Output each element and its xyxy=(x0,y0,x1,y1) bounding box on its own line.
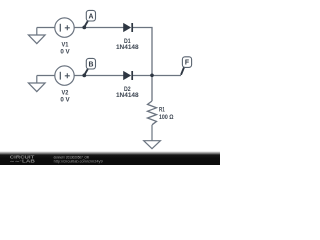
label V2 value xyxy=(60,90,70,104)
ground (top-left, for V1) xyxy=(28,28,45,44)
wire: junction down to resistor R1 top xyxy=(151,75,153,101)
svg-text:B: B xyxy=(89,61,94,68)
node F flag xyxy=(181,57,192,75)
wire: V1 right terminal to diode D1 anode xyxy=(74,27,123,29)
node B flag xyxy=(82,58,95,77)
svg-text:0 V: 0 V xyxy=(60,48,70,55)
diode D1 xyxy=(124,23,133,32)
voltage source V2 xyxy=(55,66,74,85)
node A flag xyxy=(82,10,95,29)
label D1 xyxy=(116,38,139,51)
wire: D1 cathode to top-right corner then down to junction xyxy=(133,28,152,76)
label D2 xyxy=(116,86,139,99)
svg-text:http://circuitlab.com/c/m24y9: http://circuitlab.com/c/m24y9 xyxy=(54,160,103,164)
wire: V1 row from ground corner to V1 left terminal xyxy=(37,27,55,29)
wire: D2 cathode through junction to node F tap xyxy=(133,75,181,77)
svg-text:100 Ω: 100 Ω xyxy=(159,114,174,121)
svg-text:A: A xyxy=(89,13,94,20)
label R1 xyxy=(159,107,174,121)
svg-text:F: F xyxy=(185,60,189,67)
resistor R1 xyxy=(148,101,157,125)
voltage source V1 xyxy=(55,18,74,37)
svg-text:∼∼·LAB: ∼∼·LAB xyxy=(10,158,35,163)
ground (middle-left, for V2) xyxy=(28,76,45,92)
svg-text:0 V: 0 V xyxy=(60,96,70,103)
diode D2 xyxy=(124,71,133,80)
svg-text:1N4148: 1N4148 xyxy=(116,44,139,51)
wire: V2 row from ground corner to V2 left terminal xyxy=(37,75,55,77)
label V1 value xyxy=(60,42,70,56)
watermark logo CIRCUITLAB xyxy=(10,154,35,163)
watermark user text xyxy=(54,156,103,164)
ground (bottom, below R1) xyxy=(144,125,161,149)
junction dot (D outputs meet) xyxy=(150,74,154,78)
svg-text:1N4148: 1N4148 xyxy=(116,92,139,99)
svg-text:R1: R1 xyxy=(159,107,165,114)
wire: V2 right terminal to diode D2 anode xyxy=(74,75,123,77)
